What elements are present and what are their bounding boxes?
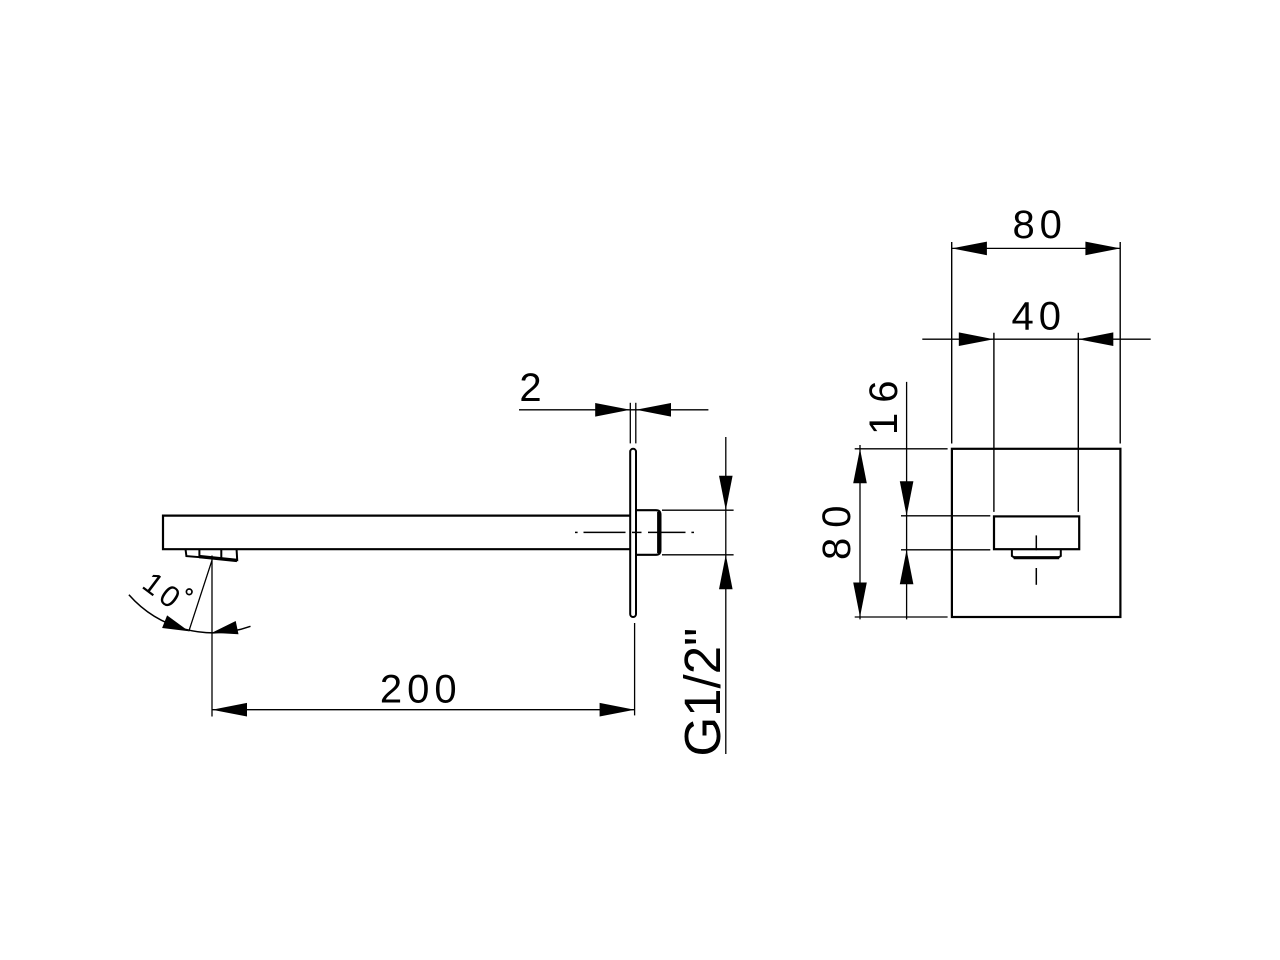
svg-text:2: 2 <box>519 366 546 410</box>
dimension 2 (plate thickness) extension lines <box>630 403 636 444</box>
dimension 80 left line <box>859 445 861 619</box>
G1/2 connector nipple (side view) <box>636 510 660 555</box>
dimension G1/2 arrow bottom <box>719 555 733 590</box>
dimension 2 line <box>519 409 708 411</box>
dimension 80 top line <box>952 247 1121 249</box>
centerline (front view) <box>1035 535 1037 584</box>
dimension 40 arrow right <box>1078 332 1113 346</box>
spout body (side view) <box>163 516 630 550</box>
wall plate square (front view) <box>952 449 1121 617</box>
dimension 200 arrow left <box>212 703 247 717</box>
svg-text:200: 200 <box>380 667 462 711</box>
angle 10 degree slanted line <box>189 561 212 632</box>
angle 10 degree arc <box>129 595 251 633</box>
dimension 40 extension lines <box>994 333 1078 512</box>
svg-text:80: 80 <box>1012 203 1067 247</box>
dimension 80 top arrow left <box>952 242 987 256</box>
dimension 16 arrow bottom <box>900 550 914 585</box>
dimension 40 line <box>922 338 1150 340</box>
angle arrow on vertical line <box>212 621 239 634</box>
dimension G1/2 arrow top <box>719 476 733 511</box>
dimension 200 arrow right <box>600 703 635 717</box>
dimension 16 line <box>906 382 908 620</box>
dimension G1/2 line <box>725 437 727 754</box>
dimension 200 extension line right <box>634 623 636 715</box>
centerline (side view axis) <box>575 531 694 533</box>
dimension 2 arrow left <box>595 403 630 417</box>
svg-text:16: 16 <box>862 371 906 436</box>
dimension G1/2 extension lines <box>662 510 734 555</box>
svg-text:G1/2": G1/2" <box>674 628 731 757</box>
svg-text:40: 40 <box>1012 295 1067 339</box>
dimension 16 arrow top <box>900 481 914 516</box>
dimension 80 left extension lines <box>855 449 948 617</box>
dimension 80 top arrow right <box>1085 242 1120 256</box>
dimension 80 top extension lines <box>952 242 1120 444</box>
dimension 40 arrow left <box>959 332 994 346</box>
dimension 16 extension lines <box>901 516 990 550</box>
angle arrow on slanted line <box>162 615 189 631</box>
dimension 2 arrow right <box>636 403 671 417</box>
dimension 80 left arrow bottom <box>853 583 867 618</box>
dimension 200 / angle reference vertical line <box>211 556 213 717</box>
spout cross-section (front view) <box>994 516 1079 549</box>
dimension 200 line <box>212 709 635 711</box>
svg-text:80: 80 <box>815 496 859 561</box>
aerator (front view) <box>1012 549 1061 557</box>
wall plate (side view) <box>630 449 636 617</box>
dimension 80 left arrow top <box>853 449 867 484</box>
aerator (side view) <box>186 550 238 561</box>
